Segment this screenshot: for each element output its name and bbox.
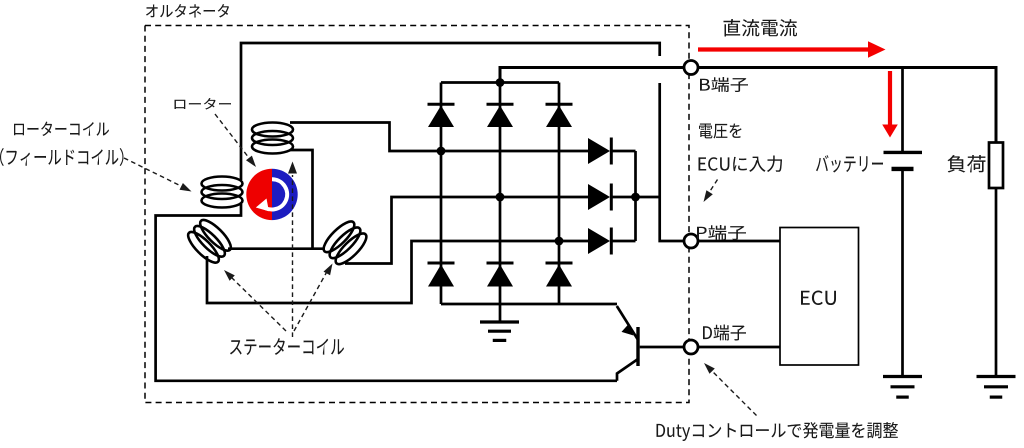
- terminal D端子 (node D): [684, 340, 698, 354]
- diode D9 (trio, phase3): [588, 228, 610, 254]
- ground: battery: [883, 375, 922, 378]
- annotation arrow: 電圧をECUに入力 to P terminal: [708, 180, 718, 196]
- stator coil L3 (bottom right, slanted): [320, 217, 371, 268]
- junction: phase2 / leg2: [496, 193, 505, 202]
- diode D2 (upper, leg2): [487, 106, 513, 128]
- diode D1 (upper, leg1): [428, 106, 454, 128]
- wire: bridge leg 3: [558, 83, 561, 305]
- wire: trio diode 1 output: [612, 150, 636, 153]
- label 負荷: [948, 155, 986, 173]
- wire: phase 1 from top stator coil to leg1 and trio diode 1: [290, 123, 589, 152]
- junction: phase3 / leg3: [555, 237, 564, 246]
- wire: star point horizontal joining left and right bottom coils: [228, 247, 325, 250]
- wire: trio diode 3 output: [612, 240, 636, 243]
- wire: bridge top bus: [441, 81, 559, 84]
- annotation arrow: ステーターコイル to bottom-right coil: [294, 272, 327, 332]
- junction: trio outputs: [631, 193, 640, 202]
- diode D5 (lower, leg2): [487, 265, 513, 287]
- rotor coil / field coil L4 (left of rotor): [202, 177, 243, 208]
- label ステーターコイル: [230, 338, 344, 355]
- label D端子: [703, 325, 746, 341]
- label ECUに入力: [699, 156, 783, 173]
- ground: bridge (below leg2): [480, 320, 519, 323]
- red arrow: charge current into battery: [888, 71, 892, 126]
- stator coil L1 (top, above rotor): [252, 123, 293, 154]
- label P端子: [697, 225, 746, 240]
- wire: bridge leg 2 (through to ground): [499, 83, 502, 322]
- wire: bridge leg 1: [440, 83, 443, 305]
- wire: trio output vertical join: [634, 151, 637, 241]
- wire: P terminal to ECU: [698, 240, 780, 243]
- terminal B端子 (node B): [684, 61, 698, 75]
- red arrow: DC current 直流電流 (to battery): [698, 47, 870, 51]
- annotation arrow: ローターコイル to field coil: [124, 158, 182, 187]
- ECU box U1: [780, 228, 859, 366]
- wire: field-coil top feed from x=241 to trio/P vertical (hops over B wire): [241, 43, 660, 180]
- label 直流電流: [724, 19, 798, 37]
- wire: phase 3 from bottom-left coil to leg3 and trio diode 3: [207, 241, 589, 303]
- wire: field coil bottom, left rail and bottom rail to transistor emitter: [156, 204, 617, 381]
- annotation arrow: ローター to rotor: [215, 114, 249, 158]
- wire: D terminal to ECU: [698, 346, 780, 349]
- diode D6 (lower, leg3): [546, 265, 572, 287]
- load resistor R1 (負荷): [989, 143, 1003, 189]
- wire: B output from bridge top stub to B terminal: [500, 68, 684, 83]
- wire: battery bottom to ground: [901, 171, 904, 375]
- diode D3 (upper, leg3): [546, 106, 572, 128]
- label オルタネータ: [146, 4, 229, 18]
- junction: bridge top bus / B stub: [496, 78, 505, 87]
- label ローター: [175, 98, 232, 110]
- rotor rotation arrow (white arc): [260, 179, 287, 209]
- wire: star point - top coil bottom end: [290, 150, 313, 249]
- label ローターコイル: [14, 122, 109, 137]
- stator coil L2 (bottom left, slanted): [184, 216, 235, 267]
- label （フィールドコイル）: [0, 148, 124, 166]
- battery BT1 (バッテリー): [884, 151, 923, 154]
- diode D4 (lower, leg1): [428, 265, 454, 287]
- junction: phase1 / leg1: [437, 147, 446, 156]
- wire: B wire from B terminal to battery and load: [698, 68, 996, 143]
- diode D8 (trio, phase2): [588, 184, 610, 210]
- terminal P端子 (node P): [684, 234, 698, 248]
- annotation arrow: ステーターコイル to bottom-left coil: [232, 278, 287, 332]
- wire: load bottom to ground: [995, 188, 998, 375]
- rotor (red/blue half disc): [246, 169, 272, 220]
- annotation arrow: ステーターコイル to top coil (through rotor): [292, 175, 294, 337]
- wire: transistor base to D terminal: [640, 346, 684, 349]
- ground: load: [977, 375, 1016, 378]
- wire: trio diode 2 output to P/field vertical: [612, 196, 660, 199]
- wire: trio/P vertical below B-wire hop, down to P terminal: [660, 83, 684, 241]
- label ECU: [801, 291, 836, 306]
- wire: phase 2 from bottom-right coil to leg2 and trio diode 2: [345, 197, 589, 264]
- label Dutyコントロールで発電量を調整: [657, 422, 899, 441]
- label バッテリー: [816, 155, 883, 173]
- alternator boundary (dashed box オルタネータ): [145, 26, 689, 403]
- label 電圧を: [699, 124, 742, 139]
- transistor Q1 (field control): [636, 327, 639, 366]
- label B端子: [700, 77, 748, 92]
- annotation arrow: Dutyコントロール to D terminal: [712, 371, 757, 416]
- wire: battery top branch: [901, 68, 904, 152]
- diode D7 (trio, phase1): [588, 138, 610, 164]
- wire: bridge bottom bus to transistor: [441, 303, 617, 306]
